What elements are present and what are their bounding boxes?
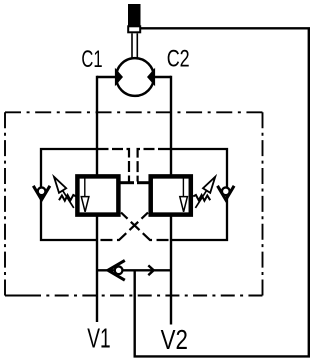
svg-text:C1: C1 [81,46,102,73]
svg-text:V1: V1 [87,323,110,354]
svg-text:V2: V2 [161,324,188,355]
svg-text:C2: C2 [167,46,190,73]
